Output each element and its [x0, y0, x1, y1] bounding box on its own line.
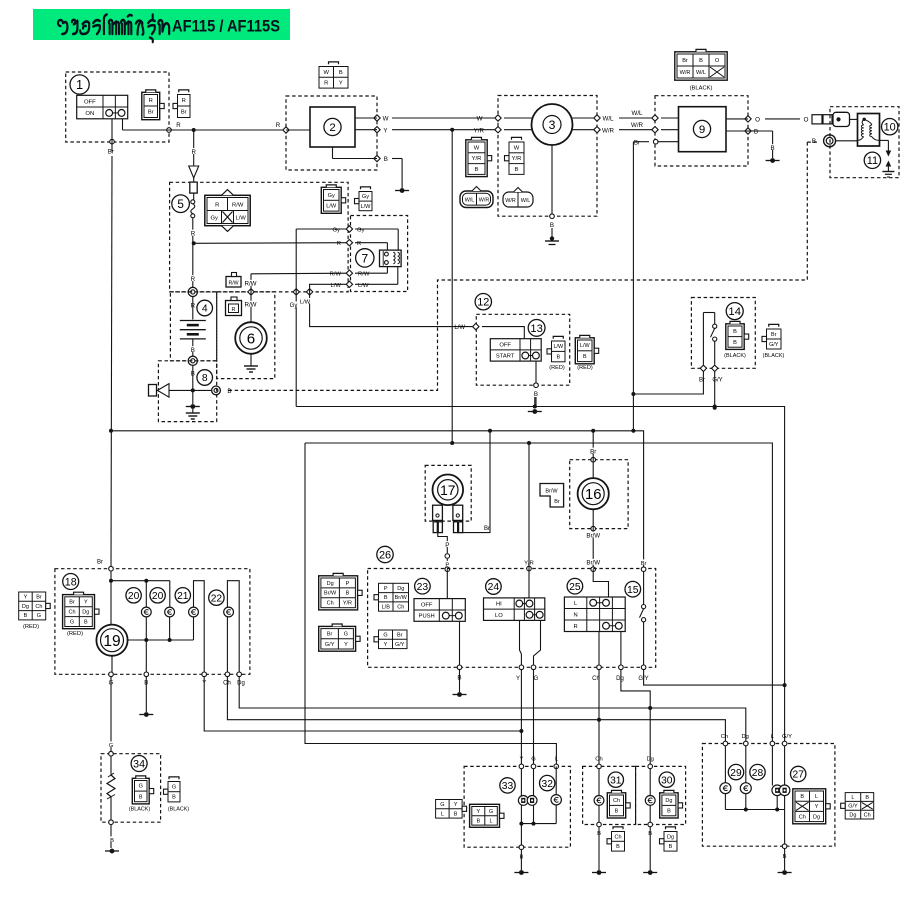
svg-text:R/W: R/W — [358, 272, 370, 278]
svg-text:L: L — [490, 818, 493, 824]
svg-text:G: G — [489, 809, 493, 815]
svg-text:B: B — [669, 844, 673, 850]
svg-text:L/W: L/W — [300, 299, 311, 305]
svg-text:B: B — [615, 808, 619, 814]
svg-text:G: G — [440, 802, 444, 808]
svg-text:Dg: Dg — [616, 676, 624, 682]
svg-text:R: R — [182, 98, 186, 104]
svg-text:Y/R: Y/R — [343, 601, 352, 607]
svg-text:START: START — [496, 354, 515, 360]
svg-text:Dg: Dg — [667, 834, 674, 840]
svg-text:Dg: Dg — [327, 581, 334, 587]
svg-text:(BLACK): (BLACK) — [690, 86, 713, 92]
svg-text:Ch: Ch — [595, 757, 602, 763]
svg-text:17: 17 — [440, 483, 455, 498]
svg-text:OFF: OFF — [421, 602, 433, 608]
svg-text:B: B — [84, 619, 88, 625]
svg-text:Dg: Dg — [813, 814, 820, 820]
svg-text:Dg: Dg — [741, 734, 748, 740]
svg-text:L/W: L/W — [358, 283, 369, 289]
svg-text:L/W: L/W — [236, 215, 247, 221]
svg-text:Gy: Gy — [332, 228, 340, 234]
svg-text:Ch: Ch — [721, 734, 728, 740]
svg-text:Br: Br — [36, 595, 42, 601]
svg-text:Br: Br — [771, 332, 777, 338]
svg-text:W/L: W/L — [696, 70, 706, 76]
svg-text:Y: Y — [84, 600, 88, 606]
svg-text:Br: Br — [397, 633, 403, 639]
svg-text:HI: HI — [496, 602, 502, 608]
svg-text:L/W: L/W — [553, 344, 563, 350]
svg-text:Dg: Dg — [397, 586, 404, 592]
svg-text:W/R: W/R — [479, 198, 490, 204]
svg-text:34: 34 — [133, 758, 145, 770]
svg-text:G: G — [139, 784, 143, 790]
svg-text:Gy: Gy — [328, 193, 335, 199]
svg-text:B: B — [865, 795, 869, 801]
svg-text:16: 16 — [585, 487, 602, 503]
svg-text:1: 1 — [76, 77, 83, 92]
svg-text:(RED): (RED) — [23, 624, 39, 630]
svg-text:G/Y: G/Y — [782, 734, 792, 740]
svg-text:R/W: R/W — [330, 272, 342, 278]
svg-text:Br: Br — [634, 140, 640, 147]
svg-text:31: 31 — [610, 775, 622, 786]
svg-text:R: R — [357, 241, 361, 247]
svg-text:Dg: Dg — [22, 604, 29, 610]
svg-text:B: B — [733, 329, 737, 335]
svg-text:Y: Y — [476, 809, 480, 815]
svg-text:R: R — [324, 81, 328, 87]
svg-text:5: 5 — [177, 198, 184, 211]
svg-text:Gy: Gy — [210, 215, 218, 221]
svg-text:B: B — [476, 818, 480, 824]
svg-text:Dg: Dg — [237, 681, 245, 687]
svg-text:Br: Br — [484, 526, 490, 532]
svg-text:B: B — [454, 811, 458, 817]
svg-text:20: 20 — [128, 591, 140, 602]
svg-text:Y: Y — [383, 127, 387, 134]
svg-text:B: B — [24, 613, 28, 619]
svg-text:30: 30 — [661, 775, 673, 786]
svg-text:24: 24 — [488, 582, 500, 593]
svg-text:R/W: R/W — [228, 281, 238, 287]
svg-text:R: R — [276, 122, 281, 129]
svg-text:9: 9 — [699, 124, 705, 136]
svg-text:Y: Y — [815, 804, 819, 810]
svg-text:ON: ON — [85, 111, 94, 117]
svg-text:G/Y: G/Y — [712, 378, 722, 384]
svg-text:Dg: Dg — [82, 610, 89, 616]
svg-text:W/L: W/L — [521, 198, 531, 204]
svg-text:B: B — [754, 129, 758, 136]
svg-text:B: B — [515, 167, 519, 173]
svg-text:G: G — [383, 633, 387, 639]
svg-text:Br/W: Br/W — [586, 560, 600, 567]
svg-text:L/W: L/W — [361, 204, 372, 210]
svg-text:Br: Br — [554, 499, 560, 505]
svg-text:R: R — [149, 98, 153, 104]
svg-text:L: L — [815, 794, 818, 800]
svg-text:OFF: OFF — [84, 99, 96, 105]
svg-text:W/R: W/R — [680, 70, 691, 76]
svg-text:B: B — [339, 70, 343, 76]
svg-text:18: 18 — [65, 576, 77, 588]
svg-text:3: 3 — [549, 118, 556, 132]
svg-text:PUSH: PUSH — [419, 614, 435, 620]
svg-text:Y: Y — [339, 81, 343, 87]
svg-text:B: B — [227, 388, 231, 395]
svg-text:L/W: L/W — [454, 325, 465, 331]
svg-text:Y: Y — [454, 802, 458, 808]
svg-text:R/W: R/W — [244, 281, 256, 288]
svg-text:B: B — [667, 808, 671, 814]
svg-text:W/L: W/L — [602, 116, 614, 123]
svg-text:G/Y: G/Y — [395, 642, 405, 648]
svg-text:25: 25 — [569, 582, 581, 593]
svg-text:Dg: Dg — [849, 812, 856, 818]
svg-text:Br: Br — [108, 148, 114, 155]
svg-text:Ch: Ch — [397, 604, 404, 610]
svg-text:L/W: L/W — [331, 283, 342, 289]
svg-text:B: B — [346, 591, 350, 597]
svg-text:(RED): (RED) — [577, 365, 593, 371]
svg-text:Y: Y — [519, 757, 523, 763]
svg-text:13: 13 — [530, 323, 542, 335]
svg-text:AF115 / AF115S: AF115 / AF115S — [172, 17, 280, 36]
svg-text:P: P — [346, 581, 350, 587]
svg-text:Ch: Ch — [864, 812, 871, 818]
svg-text:L/B: L/B — [382, 604, 391, 610]
svg-text:W: W — [474, 145, 480, 151]
svg-text:Y/R: Y/R — [512, 156, 522, 162]
svg-text:6: 6 — [247, 331, 255, 348]
svg-text:Ch: Ch — [613, 798, 620, 804]
svg-text:B: B — [800, 794, 804, 800]
svg-text:B: B — [699, 58, 703, 64]
svg-text:R/W: R/W — [244, 302, 256, 309]
svg-text:G: G — [172, 784, 176, 790]
svg-text:B: B — [384, 156, 388, 163]
svg-text:(BLACK): (BLACK) — [168, 807, 189, 813]
svg-text:R: R — [232, 307, 236, 313]
svg-text:B: B — [771, 145, 775, 152]
svg-text:R: R — [191, 230, 196, 237]
svg-text:Ch: Ch — [69, 610, 76, 616]
svg-text:R: R — [215, 202, 219, 208]
svg-text:B: B — [616, 844, 620, 850]
svg-text:Y/R: Y/R — [472, 156, 482, 162]
svg-text:W: W — [477, 116, 483, 123]
svg-text:Br: Br — [69, 600, 75, 606]
svg-text:B: B — [733, 340, 737, 346]
svg-text:11: 11 — [867, 155, 878, 167]
svg-text:W/L: W/L — [465, 198, 475, 204]
svg-text:Ch: Ch — [614, 834, 621, 840]
svg-text:R/W: R/W — [232, 202, 244, 208]
svg-text:12: 12 — [477, 297, 489, 309]
svg-text:B: B — [110, 838, 114, 844]
svg-text:21: 21 — [177, 591, 189, 602]
svg-text:R: R — [176, 122, 181, 129]
svg-text:Br: Br — [590, 448, 596, 455]
svg-text:Gy: Gy — [290, 303, 298, 309]
svg-text:G/Y: G/Y — [848, 804, 858, 810]
svg-text:R: R — [574, 624, 578, 630]
svg-text:Br: Br — [97, 560, 103, 566]
svg-text:G/Y: G/Y — [325, 642, 335, 648]
svg-text:L/W: L/W — [580, 343, 590, 349]
svg-text:4: 4 — [202, 304, 208, 315]
svg-text:O: O — [755, 116, 760, 123]
svg-text:8: 8 — [202, 373, 208, 384]
svg-text:G: G — [109, 743, 114, 749]
svg-text:10: 10 — [884, 122, 896, 134]
svg-text:32: 32 — [542, 779, 554, 790]
svg-text:Br: Br — [148, 110, 154, 116]
svg-text:B: B — [550, 222, 554, 229]
svg-text:B: B — [191, 347, 195, 354]
svg-text:22: 22 — [211, 593, 223, 604]
svg-text:L/W: L/W — [326, 204, 337, 210]
svg-text:W: W — [514, 145, 520, 151]
svg-text:W/L: W/L — [631, 110, 643, 117]
svg-text:Gy: Gy — [357, 228, 365, 234]
svg-text:Gy: Gy — [362, 194, 369, 200]
svg-text:33: 33 — [502, 781, 514, 792]
svg-text:B: B — [583, 354, 587, 360]
svg-text:Y/R: Y/R — [474, 127, 485, 134]
svg-text:(RED): (RED) — [67, 631, 83, 637]
svg-text:Y: Y — [516, 676, 520, 682]
svg-text:(RED): (RED) — [549, 365, 565, 371]
svg-text:Ch: Ch — [799, 814, 806, 820]
svg-text:B: B — [475, 167, 479, 173]
svg-text:B: B — [139, 794, 143, 800]
svg-text:G: G — [344, 632, 348, 638]
svg-text:B: B — [556, 354, 560, 360]
svg-text:Br/W: Br/W — [545, 489, 558, 495]
svg-text:Y: Y — [344, 642, 348, 648]
svg-text:R: R — [337, 241, 341, 247]
svg-text:29: 29 — [730, 768, 742, 779]
svg-text:Br: Br — [181, 110, 187, 116]
svg-text:B: B — [384, 595, 388, 601]
svg-text:W/R: W/R — [631, 122, 644, 129]
svg-text:W: W — [324, 70, 330, 76]
svg-text:Y: Y — [384, 642, 388, 648]
svg-text:Br: Br — [641, 561, 647, 567]
svg-text:P: P — [384, 586, 388, 592]
svg-text:L: L — [441, 811, 444, 817]
svg-text:R: R — [191, 149, 196, 156]
svg-text:Br: Br — [699, 378, 705, 384]
svg-text:W/R: W/R — [602, 127, 615, 134]
svg-text:23: 23 — [417, 582, 429, 593]
svg-text:Br/W: Br/W — [395, 595, 408, 601]
svg-text:15: 15 — [627, 585, 639, 596]
svg-text:Ch: Ch — [35, 604, 42, 610]
svg-text:(BLACK): (BLACK) — [129, 807, 150, 813]
svg-text:27: 27 — [793, 770, 805, 781]
svg-text:Dg: Dg — [665, 798, 672, 804]
svg-text:19: 19 — [103, 633, 120, 650]
svg-text:28: 28 — [752, 768, 764, 779]
svg-text:O: O — [715, 58, 720, 64]
svg-text:G: G — [534, 676, 539, 682]
svg-text:26: 26 — [379, 549, 391, 561]
svg-text:B: B — [534, 391, 538, 398]
svg-text:W/R: W/R — [505, 198, 516, 204]
svg-text:Ch: Ch — [327, 601, 334, 607]
svg-text:Y: Y — [24, 595, 28, 601]
svg-text:14: 14 — [728, 306, 741, 318]
svg-text:N: N — [574, 612, 578, 618]
svg-text:OFF: OFF — [499, 342, 511, 348]
svg-text:P: P — [445, 542, 449, 549]
svg-text:Br: Br — [327, 632, 333, 638]
svg-text:L: L — [851, 795, 854, 801]
svg-text:O: O — [804, 116, 809, 123]
svg-text:LO: LO — [495, 613, 503, 619]
svg-text:Br/W: Br/W — [586, 532, 600, 539]
svg-text:G: G — [531, 757, 536, 763]
svg-text:(BLACK): (BLACK) — [763, 353, 785, 359]
svg-text:2: 2 — [329, 122, 335, 134]
svg-text:R: R — [191, 276, 196, 283]
svg-text:Br/W: Br/W — [324, 591, 337, 597]
svg-text:B: B — [172, 795, 176, 801]
svg-text:Br: Br — [682, 58, 688, 64]
svg-text:W: W — [383, 116, 389, 123]
svg-text:G: G — [37, 613, 41, 619]
svg-text:7: 7 — [361, 251, 368, 265]
svg-text:G/Y: G/Y — [769, 342, 779, 348]
svg-text:(BLACK): (BLACK) — [724, 353, 746, 359]
svg-text:20: 20 — [152, 591, 164, 602]
svg-text:G: G — [70, 619, 74, 625]
